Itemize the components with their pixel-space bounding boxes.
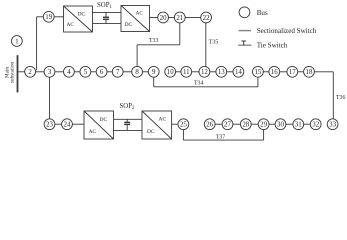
- wire: branch 7-8: [123, 71, 132, 73]
- bus 25: [178, 119, 189, 130]
- bus 7: [112, 66, 123, 77]
- capacitor of SOP2: [124, 119, 130, 130]
- bus 4: [64, 66, 75, 77]
- svg-text:10: 10: [167, 69, 174, 76]
- bus 32: [310, 119, 321, 130]
- svg-text:Bus: Bus: [257, 9, 268, 17]
- svg-text:3: 3: [48, 68, 52, 76]
- bus 1: [12, 36, 23, 47]
- tie switch T34: line bus 9 to bus 15: [154, 77, 258, 87]
- bus 27: [222, 119, 233, 130]
- wire: branch 16-17: [280, 71, 287, 73]
- svg-text:2: 2: [28, 68, 32, 76]
- svg-text:15: 15: [254, 69, 261, 76]
- svg-text:DC: DC: [78, 11, 86, 17]
- bus 23: [44, 119, 55, 130]
- svg-text:Tie Switch: Tie Switch: [257, 42, 288, 50]
- svg-text:DC: DC: [125, 22, 133, 28]
- svg-text:AC: AC: [135, 11, 143, 17]
- converter VSC1 of SOP2 (AC/DC): [84, 111, 114, 139]
- svg-text:30: 30: [277, 122, 284, 129]
- svg-text:Sectionalized Switch: Sectionalized Switch: [257, 27, 317, 35]
- wire: branch 6-7: [107, 71, 112, 73]
- svg-text:12: 12: [201, 69, 208, 76]
- wire: bus 24 to SOP2 converter: [72, 123, 84, 125]
- SOP2 DC-link wires: [114, 119, 143, 130]
- svg-text:AC: AC: [89, 129, 97, 135]
- wire: branch 3-23 (riser to bus 23): [49, 77, 51, 119]
- wire: branch 27-28: [233, 123, 241, 125]
- svg-text:7: 7: [116, 68, 120, 76]
- wire: branch 10-11: [176, 71, 181, 73]
- svg-text:T36: T36: [336, 95, 345, 101]
- svg-text:8: 8: [135, 68, 139, 76]
- bus 24: [62, 119, 73, 130]
- svg-text:16: 16: [271, 69, 278, 76]
- tie switch T33: line bus 21 to bus 8: [137, 23, 180, 67]
- bus 12: [199, 66, 210, 77]
- wire: SOP1 converter to bus 20: [150, 17, 158, 19]
- legend sectionalized switch symbol: [239, 30, 251, 32]
- svg-text:AC: AC: [159, 116, 167, 122]
- bus 31: [293, 119, 304, 130]
- wire: branch 3-4: [55, 71, 64, 73]
- bus 26: [204, 119, 215, 130]
- svg-text:1: 1: [15, 37, 19, 45]
- svg-text:25: 25: [180, 122, 187, 129]
- svg-text:substation: substation: [9, 62, 15, 83]
- svg-text:14: 14: [235, 69, 242, 76]
- svg-text:T34: T34: [194, 81, 203, 87]
- svg-text:T35: T35: [209, 40, 218, 46]
- bus 28: [240, 119, 251, 130]
- bus 33: [327, 119, 338, 130]
- wire: branch 21-22: [185, 17, 201, 19]
- svg-text:20: 20: [160, 15, 167, 22]
- capacitor of SOP1: [103, 12, 109, 23]
- bus 13: [216, 66, 227, 77]
- converter VSC1 of SOP1 (AC/DC): [64, 6, 93, 32]
- svg-text:26: 26: [206, 122, 213, 129]
- svg-text:AC: AC: [66, 22, 74, 28]
- svg-text:33: 33: [329, 122, 336, 129]
- svg-text:4: 4: [67, 68, 71, 76]
- wire: branch 30-31: [286, 123, 293, 125]
- bus 16: [269, 66, 280, 77]
- main substation busbar: [17, 55, 19, 92]
- bus 18: [304, 66, 315, 77]
- svg-text:28: 28: [242, 122, 249, 129]
- bus 29: [258, 119, 269, 130]
- bus 19: [43, 11, 54, 22]
- wire: branch 2-19 (up-left riser to bus 19): [37, 17, 44, 71]
- svg-text:31: 31: [295, 122, 302, 129]
- svg-text:DC: DC: [147, 129, 155, 135]
- wire: branch 8-9: [143, 71, 149, 73]
- svg-text:DC: DC: [100, 117, 108, 123]
- wire: branch 13-14: [227, 71, 233, 73]
- SOP1 DC-link wires: [93, 12, 122, 23]
- bus 2: [25, 66, 36, 77]
- svg-text:32: 32: [312, 122, 319, 129]
- svg-text:24: 24: [64, 122, 71, 129]
- legend bus symbol: [239, 7, 250, 18]
- bus 9: [148, 66, 159, 77]
- svg-text:5: 5: [84, 68, 88, 76]
- wire: SOP2 converter to bus 25: [172, 123, 178, 125]
- svg-text:11: 11: [183, 69, 190, 76]
- svg-text:22: 22: [203, 15, 210, 22]
- wire: branch 29-30: [269, 123, 275, 125]
- label: Main substation (rotated): [4, 62, 15, 83]
- bus 11: [181, 66, 192, 77]
- svg-text:9: 9: [152, 68, 156, 76]
- bus 10: [165, 66, 176, 77]
- svg-text:13: 13: [218, 69, 225, 76]
- wire: branch 26-27: [215, 123, 222, 125]
- converter VSC2 of SOP2 (DC/AC): [142, 111, 172, 139]
- bus 15: [253, 66, 264, 77]
- wire: branch 5-6: [91, 71, 96, 73]
- bus 30: [275, 119, 286, 130]
- svg-text:23: 23: [46, 122, 53, 129]
- svg-text:21: 21: [176, 15, 183, 22]
- wire: branch 20-21: [169, 17, 175, 19]
- tie switch T36: line bus 18 to bus 33: [314, 72, 333, 119]
- svg-text:18: 18: [306, 69, 313, 76]
- svg-text:6: 6: [100, 68, 104, 76]
- svg-text:19: 19: [45, 14, 52, 21]
- wire: branch 11-12: [192, 71, 199, 73]
- svg-text:17: 17: [289, 69, 296, 76]
- legend tie switch symbol: [238, 41, 251, 45]
- tie switch T37: line bus 25 to bus 29: [183, 130, 263, 141]
- wire: bus 19 to SOP1 converter: [54, 16, 63, 18]
- wire: branch 4-5: [74, 71, 80, 73]
- converter VSC2 of SOP1 (DC/AC): [121, 6, 150, 32]
- wire: branch 2-3: [36, 71, 45, 73]
- bus 14: [233, 66, 244, 77]
- svg-text:27: 27: [224, 122, 231, 129]
- bus 21: [174, 12, 185, 23]
- svg-text:T37: T37: [216, 134, 225, 140]
- bus 20: [158, 12, 169, 23]
- svg-text:T33: T33: [149, 38, 158, 44]
- bus 8: [132, 66, 143, 77]
- wire: branch 23-24: [55, 123, 62, 125]
- bus 6: [96, 66, 107, 77]
- bus 22: [201, 12, 212, 23]
- wire: substation bar to bus 2: [18, 71, 25, 73]
- wire: branch 17-18: [298, 71, 304, 73]
- bus 17: [287, 66, 298, 77]
- wire: branch 15-16: [263, 71, 269, 73]
- tie switch T35: line bus 22 to bus 12: [205, 23, 207, 67]
- wire: branch 12-13: [210, 71, 216, 73]
- wire: branch 31-32: [304, 123, 311, 125]
- bus 5: [80, 66, 91, 77]
- bus 3: [44, 66, 55, 77]
- svg-text:29: 29: [260, 122, 267, 129]
- wire: branch 28-29: [251, 123, 258, 125]
